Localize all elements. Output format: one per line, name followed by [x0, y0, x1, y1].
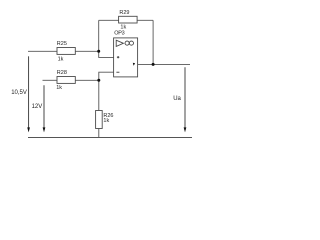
svg-text:OP3: OP3 [114, 30, 124, 36]
output node junction dot [152, 63, 155, 66]
wire node A to op-amp + input [99, 51, 114, 57]
svg-text:R25: R25 [57, 41, 67, 47]
wire R25 to node A [75, 50, 98, 52]
resistor R26 [96, 111, 103, 129]
op-amp gain triangle [116, 40, 123, 46]
svg-text:1k: 1k [103, 118, 109, 124]
svg-text:10,5V: 10,5V [11, 90, 27, 96]
wire R26 to ground rail [98, 129, 100, 138]
wire feedback left vertical (top rail to node A) [98, 20, 100, 51]
node A junction dot [97, 50, 100, 53]
op-amp output arrow [133, 63, 135, 66]
voltage arrow 12V [43, 85, 46, 132]
node B junction dot [97, 79, 100, 82]
op-amp infinity symbol [125, 41, 133, 45]
svg-text:1k: 1k [56, 85, 62, 91]
svg-text:1k: 1k [58, 56, 64, 62]
resistor R29 [119, 16, 138, 23]
wire top rail right segment [137, 19, 153, 21]
svg-text:R29: R29 [119, 10, 129, 16]
svg-text:12V: 12V [32, 104, 43, 110]
wire top rail left segment [99, 19, 119, 21]
wire R25 input stub [28, 50, 57, 52]
wire R28 input stub [43, 79, 58, 81]
voltage arrow Ua [184, 67, 187, 132]
svg-text:Ua: Ua [173, 96, 181, 102]
wire op-amp - input to node B vertical [99, 72, 114, 110]
op-amp pin - [116, 71, 119, 73]
resistor R25 [57, 48, 75, 55]
wire R28 to node B [75, 79, 99, 81]
op-amp pin + [117, 56, 119, 58]
svg-text:R28: R28 [57, 70, 67, 76]
wire feedback right vertical (top rail to output node) [152, 20, 154, 64]
resistor R28 [57, 77, 75, 84]
voltage arrow 10,5V [27, 56, 30, 132]
op-amp OP3 body [114, 38, 138, 77]
wire op-amp output [138, 63, 190, 65]
ground rail [28, 137, 192, 139]
